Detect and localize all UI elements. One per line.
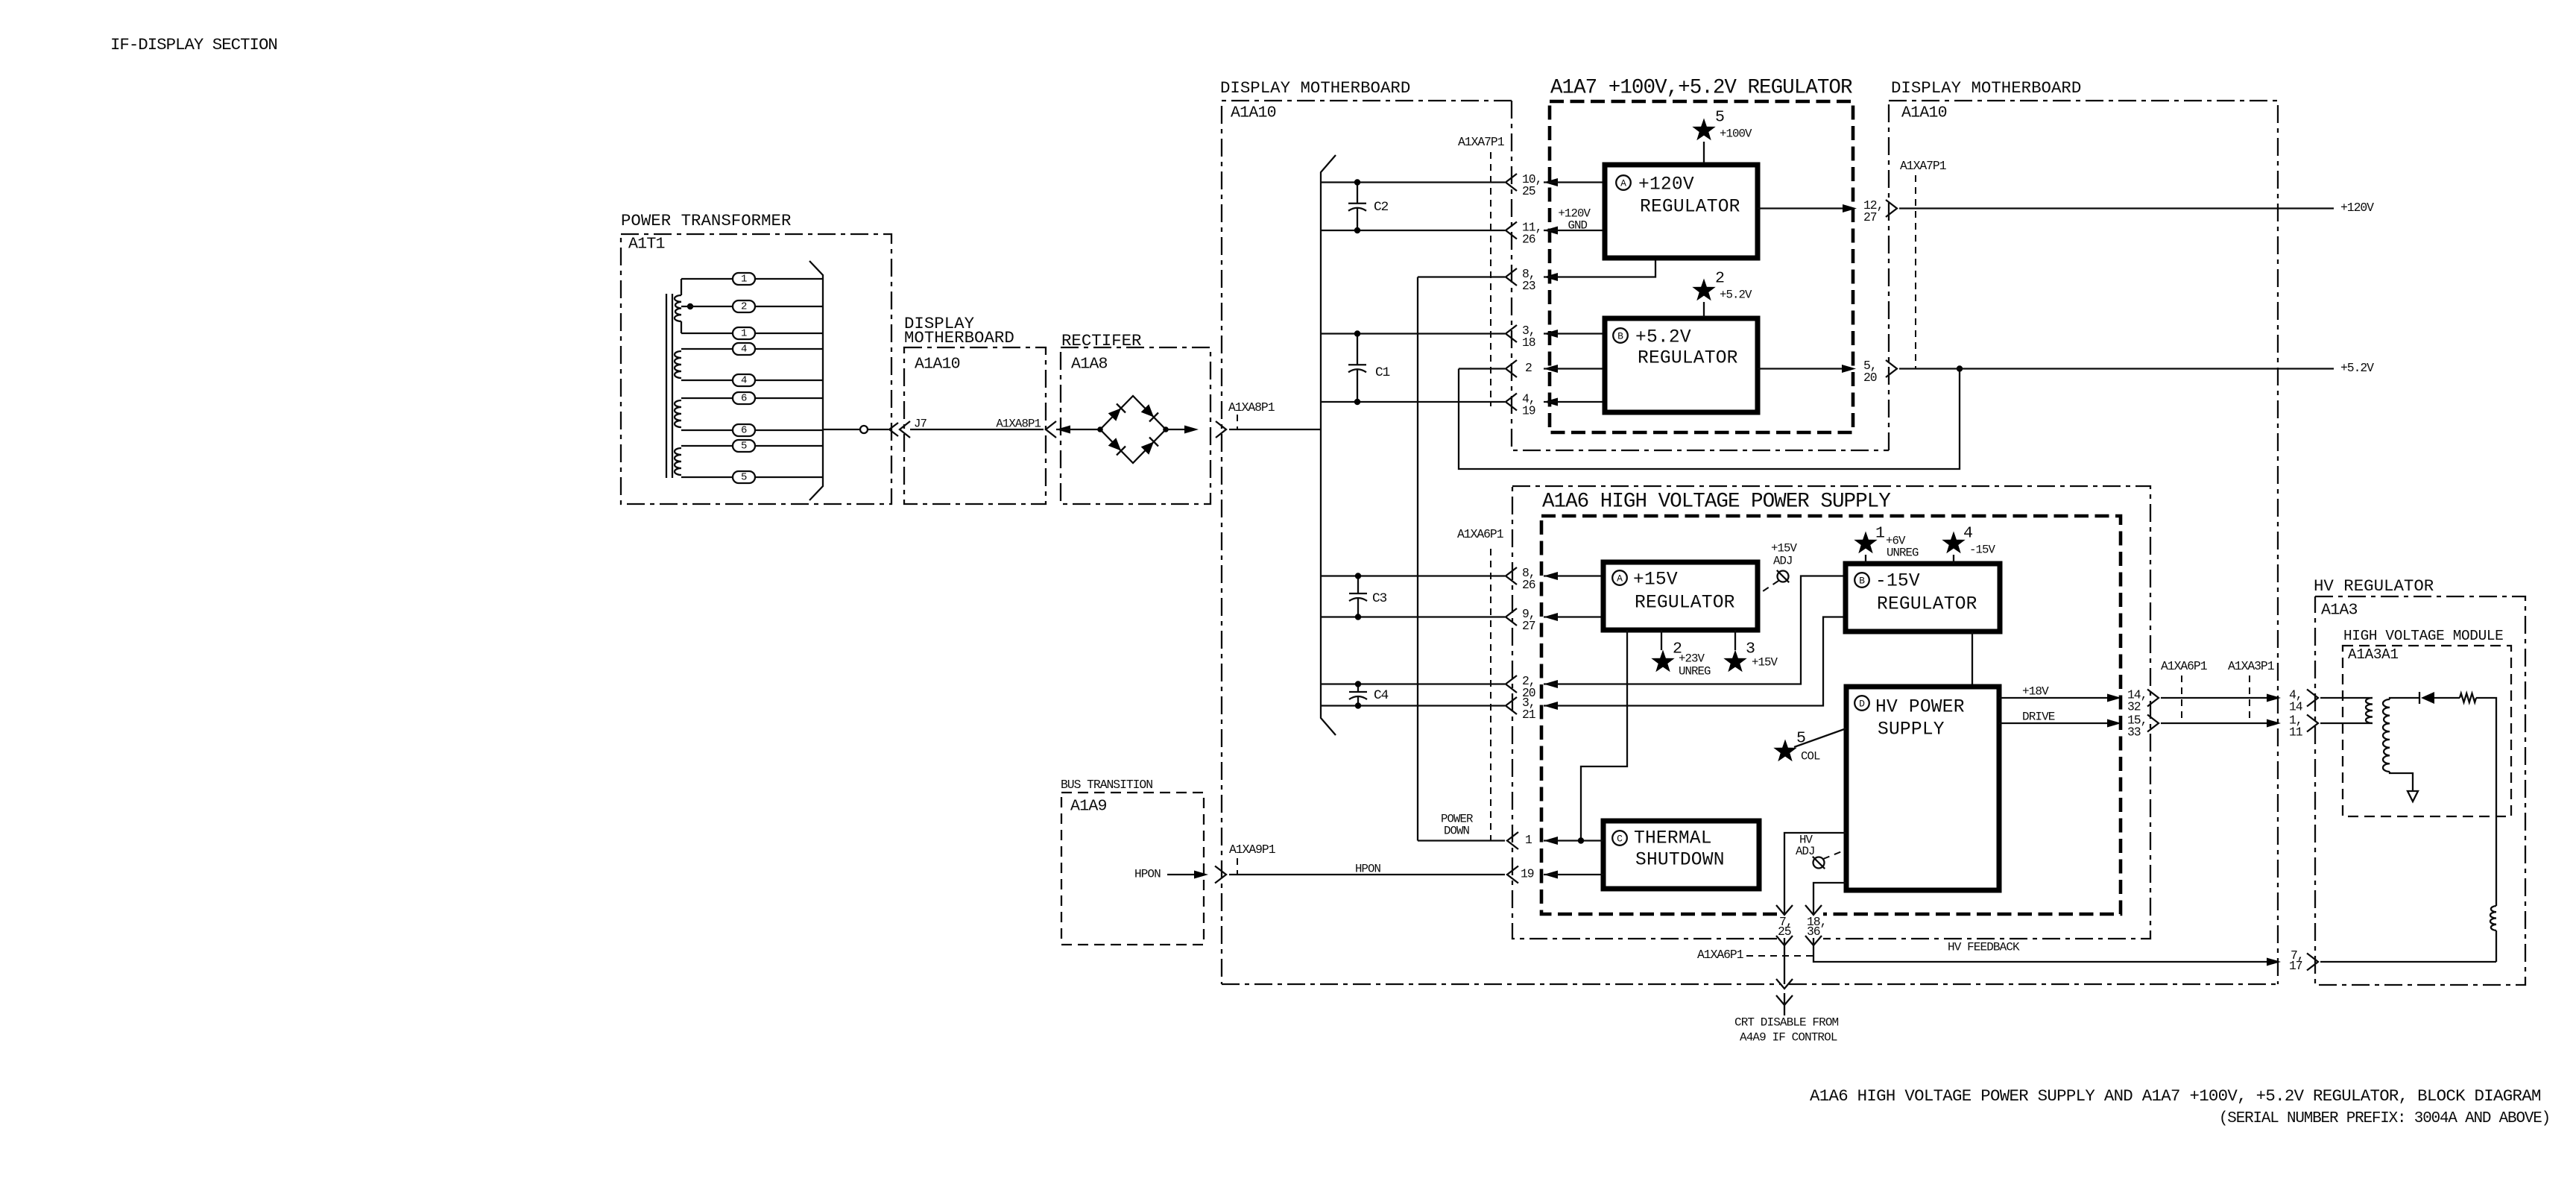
pin oval 4 (733, 343, 755, 355)
wire transformer pin 1 row (681, 333, 733, 334)
svg-text:REGULATOR: REGULATOR (1635, 593, 1735, 614)
connector box A1A10 small (904, 347, 1046, 504)
star 5 COL (1773, 740, 1796, 762)
svg-text:18: 18 (1522, 336, 1535, 350)
svg-text:MOTHERBOARD: MOTHERBOARD (904, 328, 1014, 347)
svg-text:GND: GND (1568, 219, 1587, 233)
svg-text:6: 6 (741, 424, 747, 436)
wire secondary to chassis (2390, 772, 2413, 790)
wire +5.2V output (1758, 368, 1851, 369)
wire transformer pin 6 row (681, 429, 733, 431)
svg-text:A1XA7P1: A1XA7P1 (1458, 135, 1505, 149)
star 2 +23V UNREG (1661, 630, 1662, 650)
pin oval 2 (733, 300, 755, 312)
wire +120V rail (1899, 207, 2334, 209)
wire +5.2V feedback return (1459, 369, 1960, 470)
svg-text:THERMAL: THERMAL (1634, 829, 1712, 849)
wire J7 to A1XA8P1 (910, 429, 1044, 430)
wire 7,25 from hv supply (1784, 833, 1846, 913)
svg-text:A1XA8P1: A1XA8P1 (996, 418, 1041, 431)
svg-text:A1XA6P1: A1XA6P1 (1457, 527, 1504, 541)
wire transformer pin 5 row (681, 476, 733, 478)
wire row 8,26 (1321, 575, 1505, 576)
svg-text:C: C (1617, 834, 1623, 845)
wire hpon row 19 (1229, 874, 1505, 875)
transformer secondary winding 1 (675, 351, 681, 378)
svg-text:REGULATOR: REGULATOR (1638, 349, 1738, 369)
wire +18V to A1A3 (2161, 697, 2276, 699)
hv supply board box A1A6 (1541, 516, 2121, 914)
svg-text:C4: C4 (1374, 688, 1388, 703)
star 2 +5.2V (1692, 279, 1715, 301)
bus harness vertical (1321, 155, 1336, 735)
svg-text:B: B (1859, 576, 1865, 587)
node center tap dot (687, 303, 693, 309)
motherboard pocket around A1A7 (1512, 101, 1889, 450)
wire row 9,27 (1321, 616, 1505, 617)
svg-text:-15V: -15V (1875, 572, 1920, 592)
wire hpon out of A1A9 (1167, 874, 1202, 875)
svg-text:2: 2 (1715, 270, 1724, 288)
svg-text:1: 1 (741, 273, 747, 285)
svg-text:+5.2V: +5.2V (2340, 361, 2374, 375)
svg-text:CRT DISABLE FROM: CRT DISABLE FROM (1734, 1016, 1839, 1030)
svg-text:POWER TRANSFORMER: POWER TRANSFORMER (621, 211, 791, 230)
regulator block A +15V (1603, 562, 1758, 630)
svg-text:J7: J7 (914, 418, 927, 431)
svg-text:1: 1 (1525, 833, 1532, 847)
svg-text:A1A9: A1A9 (1070, 798, 1107, 816)
svg-text:27: 27 (1522, 619, 1535, 633)
star 5 +100V (1692, 119, 1715, 141)
chevron at A1T1 edge (889, 423, 898, 436)
thermal shutdown block C (1603, 821, 1759, 889)
capacitor C3 (1357, 576, 1359, 594)
svg-text:27: 27 (1863, 210, 1877, 224)
svg-text:(SERIAL NUMBER PREFIX: 3004A A: (SERIAL NUMBER PREFIX: 3004A AND ABOVE) (2219, 1110, 2550, 1127)
svg-text:A1A10: A1A10 (915, 356, 960, 374)
wire DRIVE (1999, 722, 2117, 724)
wire +120V output (1758, 207, 1852, 209)
motherboard box A1A10 left (1222, 101, 1512, 984)
wire crt disable (1784, 938, 1785, 984)
svg-text:6: 6 (741, 392, 747, 404)
bus transition box A1A9 (1061, 793, 1204, 945)
svg-text:32: 32 (2127, 700, 2141, 714)
wire 18,36 from hv supply (1813, 883, 1846, 913)
svg-text:+120V: +120V (1638, 175, 1694, 195)
svg-text:+120V: +120V (2340, 201, 2374, 215)
svg-text:A1A3: A1A3 (2321, 602, 2358, 620)
svg-text:+18V: +18V (2022, 685, 2049, 699)
svg-text:A1A7 +100V,+5.2V REGULATOR: A1A7 +100V,+5.2V REGULATOR (1550, 77, 1852, 100)
transformer hv primary (2366, 698, 2373, 723)
svg-text:A1A6 HIGH VOLTAGE POWER SUPPLY: A1A6 HIGH VOLTAGE POWER SUPPLY (1542, 491, 1891, 514)
wire +5.2V rail (1899, 368, 2334, 369)
capacitor C4 (1357, 684, 1359, 693)
transformer box A1T1 (621, 234, 891, 504)
svg-text:14: 14 (2289, 700, 2302, 714)
chassis arrow (2408, 791, 2418, 801)
hv power supply block D (1846, 687, 1999, 890)
svg-text:A1XA7P1: A1XA7P1 (1900, 159, 1947, 173)
svg-text:REGULATOR: REGULATOR (1877, 595, 1977, 615)
wire DRIVE into module (2320, 722, 2373, 724)
svg-text:DOWN: DOWN (1444, 825, 1470, 838)
svg-text:A1A10: A1A10 (1231, 104, 1276, 122)
svg-text:B: B (1617, 331, 1623, 342)
svg-text:HV POWER: HV POWER (1875, 698, 1965, 718)
svg-text:21: 21 (1522, 708, 1536, 722)
svg-text:11: 11 (2289, 725, 2303, 740)
pin oval 1 (733, 327, 755, 339)
wire transformer pin 4 row (681, 380, 733, 381)
svg-text:25: 25 (1778, 925, 1791, 939)
svg-text:SHUTDOWN: SHUTDOWN (1635, 851, 1725, 871)
regulator block B -15V (1846, 564, 2000, 632)
transformer secondary winding 3 (675, 448, 681, 475)
svg-text:C2: C2 (1374, 200, 1388, 215)
svg-text:ADJ: ADJ (1796, 845, 1815, 858)
svg-text:A1A10: A1A10 (1901, 104, 1947, 122)
star 1 +6V UNREG (1854, 532, 1877, 554)
svg-text:SUPPLY: SUPPLY (1878, 720, 1945, 740)
capacitor C1 (1357, 334, 1358, 365)
svg-text:DISPLAY MOTHERBOARD: DISPLAY MOTHERBOARD (1891, 78, 2081, 98)
svg-text:HPON: HPON (1355, 863, 1381, 876)
diode bridge top-left (1108, 409, 1121, 421)
transformer hv secondary (2383, 699, 2390, 772)
chevron +5.2V into right board (1886, 360, 1897, 377)
svg-text:HPON: HPON (1134, 868, 1161, 881)
regulator board box A1A7 (1550, 101, 1853, 432)
svg-text:IF-DISPLAY SECTION: IF-DISPLAY SECTION (110, 35, 277, 54)
wire transformer pin 4 row (681, 348, 733, 350)
svg-text:HV REGULATOR: HV REGULATOR (2314, 576, 2434, 596)
hv module box A1A3A1 (2343, 646, 2511, 816)
svg-text:2: 2 (741, 300, 747, 312)
svg-text:REGULATOR: REGULATOR (1640, 198, 1740, 218)
diode bridge top-right (1141, 404, 1154, 417)
transformer secondary winding 2 (675, 400, 681, 427)
wire transformer pin 1 row (681, 278, 733, 280)
svg-text:+15V: +15V (1633, 570, 1678, 590)
svg-text:19: 19 (1522, 404, 1535, 418)
wire rectifier output (1166, 429, 1193, 430)
svg-text:A1XA9P1: A1XA9P1 (1229, 843, 1276, 857)
chevron at A1XA8P1 (1046, 421, 1056, 438)
node output circle (860, 426, 868, 433)
arrow 7,25 first (1776, 905, 1793, 915)
svg-text:A: A (1620, 178, 1626, 189)
wire transformer pin 6 row (681, 397, 733, 399)
svg-text:+15V: +15V (1771, 542, 1798, 555)
diode bridge bottom-left (1108, 438, 1121, 450)
chevron 1,11 (2307, 715, 2318, 732)
chevron 14,32 (2147, 690, 2159, 707)
pin oval 5 (733, 471, 755, 483)
svg-text:C3: C3 (1372, 591, 1386, 606)
svg-text:4: 4 (741, 343, 747, 355)
transformer T1 core (666, 294, 667, 478)
svg-text:BUS TRANSITION: BUS TRANSITION (1061, 778, 1152, 792)
star 4 -15V (1942, 532, 1965, 554)
svg-text:HV FEEDBACK: HV FEEDBACK (1948, 941, 2020, 954)
svg-text:+15V: +15V (1752, 656, 1778, 670)
wire power down row 1 (1418, 840, 1505, 841)
wire star2 to block (1703, 302, 1705, 317)
diode bridge bottom-right (1141, 442, 1154, 455)
resistor R (2460, 693, 2476, 702)
svg-text:COL: COL (1801, 750, 1820, 763)
svg-text:17: 17 (2289, 959, 2302, 973)
wire into rectifier (1056, 426, 1070, 434)
svg-text:A1A3A1: A1A3A1 (2348, 646, 2399, 663)
svg-text:4: 4 (741, 374, 747, 386)
wire +5.2V fb row 2 (1459, 368, 1505, 369)
chevron 15,33 (2147, 715, 2159, 732)
svg-text:23: 23 (1522, 279, 1535, 293)
svg-text:26: 26 (1522, 578, 1535, 592)
chevron hpon at A1XA9P1 (1215, 866, 1226, 884)
wire +5.2V sense row 3,18 (1321, 333, 1505, 334)
svg-text:4: 4 (1963, 525, 1972, 543)
svg-text:5: 5 (741, 440, 747, 452)
svg-text:HIGH VOLTAGE MODULE: HIGH VOLTAGE MODULE (2343, 628, 2503, 644)
svg-text:A4A9 IF CONTROL: A4A9 IF CONTROL (1740, 1031, 1837, 1045)
connector tick A1XA8P1 (1237, 415, 1238, 429)
svg-text:A1A6 HIGH VOLTAGE POWER SUPPLY: A1A6 HIGH VOLTAGE POWER SUPPLY AND A1A7 … (1810, 1086, 2541, 1106)
svg-text:A1A8: A1A8 (1071, 356, 1108, 374)
svg-text:+5.2V: +5.2V (1635, 328, 1691, 348)
svg-text:+100V: +100V (1720, 127, 1752, 141)
pin oval 6 (733, 424, 755, 436)
hv regulator box A1A3 (2315, 596, 2525, 985)
svg-text:DRIVE: DRIVE (2022, 711, 2055, 724)
chevron hv feedback (2307, 954, 2318, 971)
harness bracket (809, 261, 823, 500)
svg-text:1: 1 (741, 327, 747, 339)
regulator block A +120V (1605, 165, 1758, 258)
connector tick A1XA9P1 (1237, 858, 1238, 875)
svg-text:19: 19 (1521, 867, 1534, 881)
svg-text:5: 5 (1715, 109, 1724, 127)
wire +18V (1999, 697, 2117, 699)
svg-text:UNREG: UNREG (1679, 665, 1711, 678)
wire feedback down (2495, 930, 2497, 962)
capacitor C2 (1357, 183, 1358, 204)
wire row 4,19 (1321, 401, 1505, 403)
svg-text:20: 20 (1863, 371, 1877, 385)
svg-text:25: 25 (1522, 184, 1535, 198)
wire star5 to block (1703, 142, 1705, 163)
wire DRIVE to A1A3 (2161, 722, 2276, 724)
star 3 +15V (1734, 630, 1736, 650)
svg-text:26: 26 (1522, 233, 1535, 247)
wire hv to feedback (2476, 698, 2496, 906)
wire +120V out row 10,25 (1321, 181, 1505, 183)
pin oval 6 (733, 392, 755, 404)
svg-text:33: 33 (2127, 725, 2141, 740)
rectifier bridge CR1 (1100, 396, 1166, 463)
connector line A1XA7P1 right (1915, 175, 1916, 368)
svg-text:2: 2 (1525, 361, 1532, 375)
svg-text:A: A (1617, 573, 1623, 585)
wire -15V to hv supply (1972, 632, 1973, 687)
svg-text:UNREG: UNREG (1887, 547, 1919, 560)
wire +18V into module (2320, 697, 2373, 699)
svg-text:ADJ: ADJ (1773, 555, 1793, 568)
wire transformer pin 5 row (681, 445, 733, 447)
chevron into big motherboard (1216, 421, 1226, 438)
svg-text:A1XA8P1: A1XA8P1 (1228, 400, 1275, 415)
svg-text:A1XA6P1: A1XA6P1 (2161, 659, 2208, 673)
svg-text:D: D (1859, 699, 1865, 710)
transformer primary winding (675, 295, 681, 321)
chevron +120V into right board (1886, 200, 1897, 217)
wire +120V gnd row 11,26 (1321, 230, 1505, 231)
pin oval 5 (733, 440, 755, 452)
chevron at motherboard edge (900, 421, 910, 438)
svg-text:A1XA6P1: A1XA6P1 (1697, 948, 1744, 962)
connector line A1XA7P1 left (1490, 152, 1491, 406)
svg-text:A1XA3P1: A1XA3P1 (2228, 659, 2275, 673)
pin oval 4 (733, 374, 755, 386)
wire row 3,21 (1321, 705, 1505, 706)
wire hv feedback right (2320, 961, 2496, 963)
svg-text:A1T1: A1T1 (628, 236, 665, 253)
svg-text:C1: C1 (1375, 365, 1389, 380)
motherboard box A1A10 right (1889, 101, 2278, 984)
regulator block B +5.2V (1605, 318, 1758, 412)
wire +15V block to power down node (1581, 630, 1627, 841)
connector line A1XA6P1 left (1490, 549, 1491, 840)
diode CR (2419, 692, 2420, 704)
wire to bus (1229, 429, 1321, 430)
arrow 7,25 second (1776, 936, 1793, 945)
svg-text:DISPLAY MOTHERBOARD: DISPLAY MOTHERBOARD (1220, 78, 1410, 98)
rectifier box A1A8 (1061, 347, 1210, 504)
pin oval 1 (733, 273, 755, 285)
svg-text:1: 1 (1875, 525, 1884, 543)
wire power down row 8,23 (1418, 276, 1505, 277)
wire transformer output (823, 429, 860, 430)
chevron 4,14 (2307, 690, 2318, 707)
wire star5 to hv supply (1794, 728, 1846, 747)
svg-text:+5.2V: +5.2V (1720, 289, 1752, 302)
wire power down vertical (1417, 277, 1418, 841)
wire hv feedback left (1813, 938, 2276, 962)
svg-text:5: 5 (741, 471, 747, 483)
svg-text:36: 36 (1807, 925, 1820, 939)
hv supply outer box (1512, 486, 2150, 939)
inductor L feedback (2490, 906, 2496, 930)
wire transformer pin 2 row (681, 306, 733, 307)
svg-text:-15V: -15V (1969, 544, 1996, 557)
wire row 2,20 (1321, 683, 1505, 684)
svg-text:+23V: +23V (1679, 652, 1705, 666)
